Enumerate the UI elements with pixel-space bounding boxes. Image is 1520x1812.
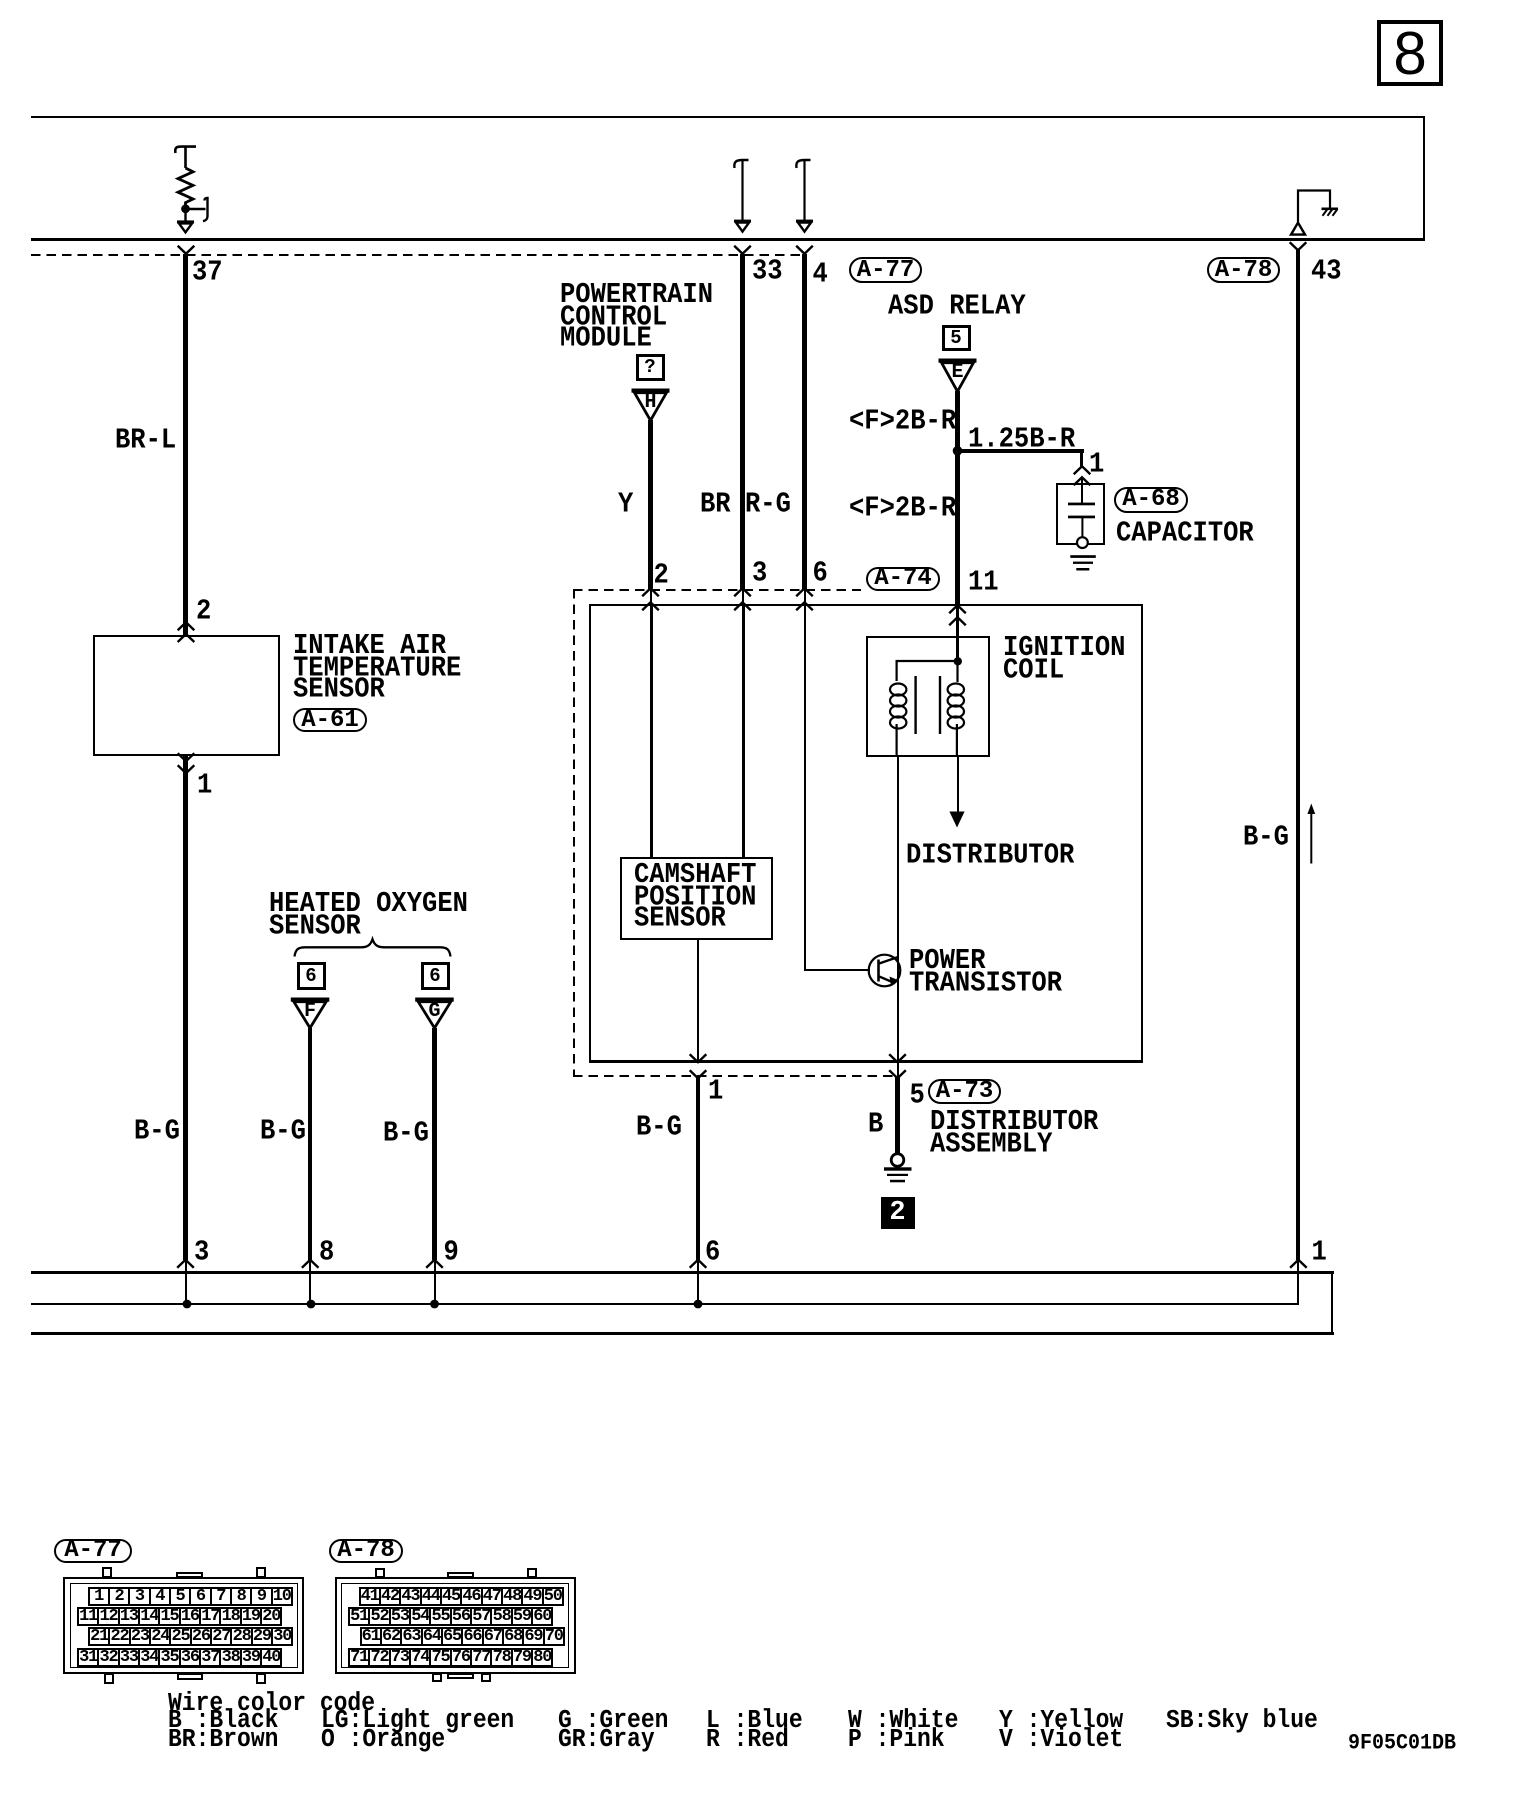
svg-text:G: G [428,1000,440,1023]
svg-text:H: H [644,391,656,414]
svg-text:F: F [304,1000,316,1023]
svg-text:E: E [951,361,963,384]
